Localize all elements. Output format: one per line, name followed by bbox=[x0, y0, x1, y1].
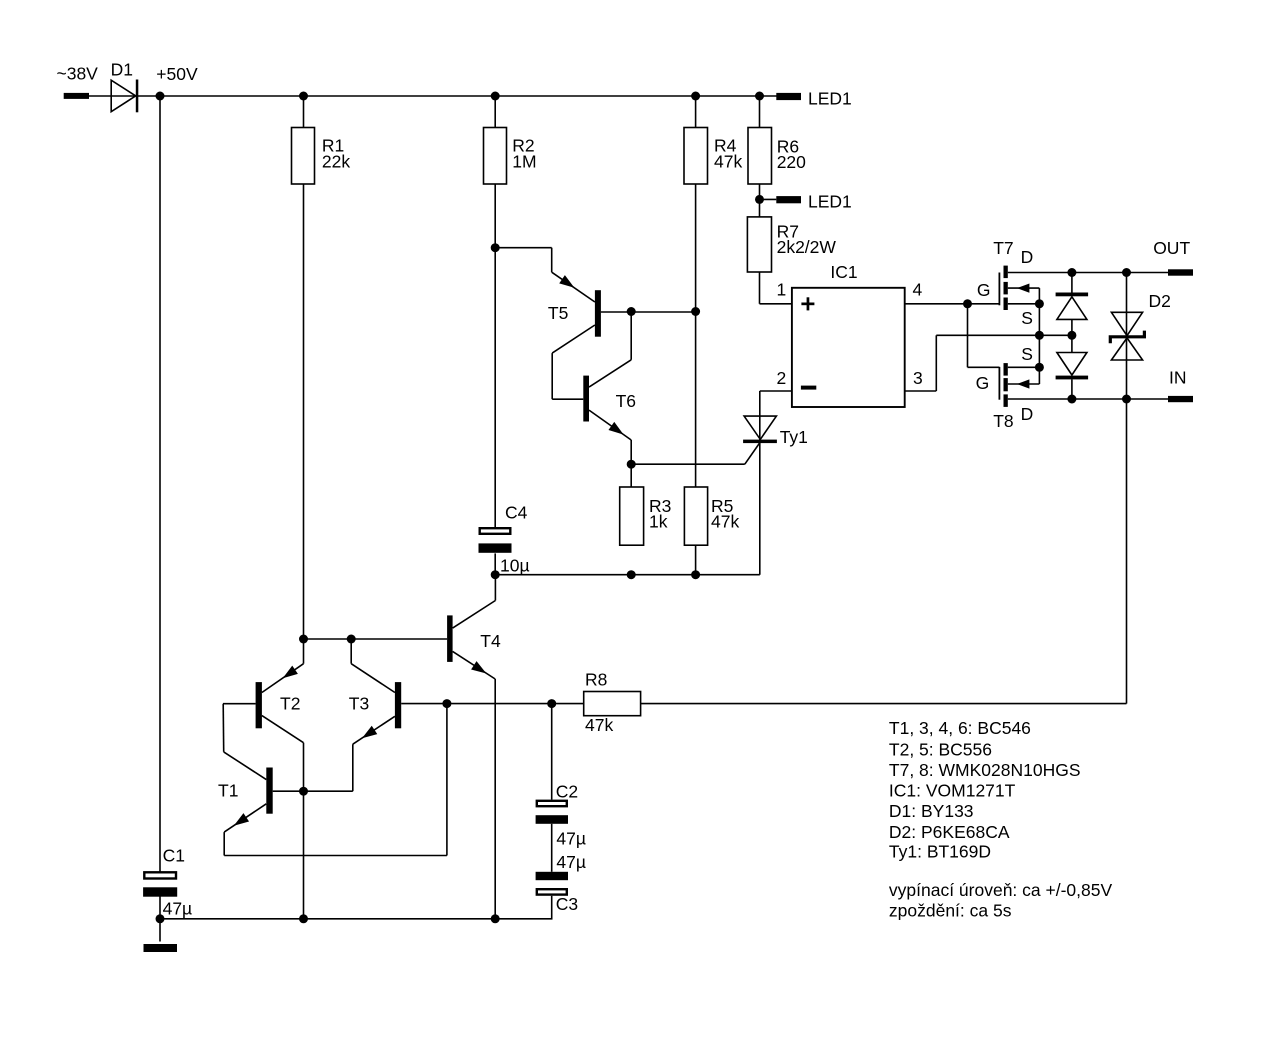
svg-text:G: G bbox=[976, 373, 990, 393]
svg-text:D1: BY133: D1: BY133 bbox=[889, 801, 974, 821]
svg-text:G: G bbox=[977, 280, 991, 300]
svg-text:4: 4 bbox=[913, 279, 923, 299]
svg-text:IN: IN bbox=[1169, 368, 1187, 388]
svg-text:3: 3 bbox=[913, 368, 923, 388]
svg-text:47µ: 47µ bbox=[556, 828, 586, 848]
svg-text:2k2/2W: 2k2/2W bbox=[777, 237, 837, 257]
svg-text:1k: 1k bbox=[649, 512, 668, 532]
svg-text:IC1: VOM1271T: IC1: VOM1271T bbox=[889, 780, 1016, 800]
svg-text:47k: 47k bbox=[714, 151, 742, 171]
svg-text:T1, 3, 4, 6: BC546: T1, 3, 4, 6: BC546 bbox=[889, 718, 1031, 738]
svg-text:47µ: 47µ bbox=[163, 898, 193, 918]
svg-text:10µ: 10µ bbox=[500, 556, 530, 576]
svg-text:T8: T8 bbox=[993, 411, 1013, 431]
svg-text:T5: T5 bbox=[548, 303, 568, 323]
svg-text:C4: C4 bbox=[505, 502, 528, 522]
svg-text:1: 1 bbox=[777, 279, 787, 299]
svg-text:IC1: IC1 bbox=[830, 262, 857, 282]
svg-text:S: S bbox=[1021, 308, 1033, 328]
svg-text:C2: C2 bbox=[556, 782, 578, 802]
svg-text:T1: T1 bbox=[218, 781, 238, 801]
svg-text:T6: T6 bbox=[616, 391, 636, 411]
svg-text:T2, 5: BC556: T2, 5: BC556 bbox=[889, 740, 992, 760]
svg-text:47µ: 47µ bbox=[556, 852, 586, 872]
svg-text:D2: P6KE68CA: D2: P6KE68CA bbox=[889, 822, 1010, 842]
svg-text:vypínací úroveň: ca +/-0,85V: vypínací úroveň: ca +/-0,85V bbox=[889, 880, 1113, 900]
svg-text:R8: R8 bbox=[585, 669, 607, 689]
svg-text:zpoždění: ca 5s: zpoždění: ca 5s bbox=[889, 901, 1012, 921]
svg-text:T7, 8: WMK028N10HGS: T7, 8: WMK028N10HGS bbox=[889, 760, 1081, 780]
svg-text:T3: T3 bbox=[349, 694, 369, 714]
svg-text:Ty1: BT169D: Ty1: BT169D bbox=[889, 842, 991, 862]
svg-text:D1: D1 bbox=[111, 60, 133, 80]
svg-text:S: S bbox=[1021, 344, 1033, 364]
svg-text:220: 220 bbox=[777, 152, 806, 172]
svg-text:C3: C3 bbox=[556, 894, 578, 914]
svg-text:D2: D2 bbox=[1149, 291, 1171, 311]
svg-text:22k: 22k bbox=[322, 151, 350, 171]
svg-text:T2: T2 bbox=[280, 694, 300, 714]
svg-text:OUT: OUT bbox=[1153, 238, 1190, 258]
svg-text:1M: 1M bbox=[512, 151, 536, 171]
svg-text:C1: C1 bbox=[163, 846, 185, 866]
svg-text:T7: T7 bbox=[993, 238, 1013, 258]
svg-text:LED1: LED1 bbox=[808, 88, 852, 108]
svg-text:2: 2 bbox=[777, 368, 787, 388]
svg-text:D: D bbox=[1021, 247, 1034, 267]
svg-text:Ty1: Ty1 bbox=[780, 427, 808, 447]
svg-text:+50V: +50V bbox=[156, 64, 198, 84]
svg-text:D: D bbox=[1021, 404, 1034, 424]
svg-text:~38V: ~38V bbox=[57, 64, 99, 84]
svg-text:LED1: LED1 bbox=[808, 191, 852, 211]
svg-text:47k: 47k bbox=[585, 715, 613, 735]
svg-text:47k: 47k bbox=[711, 512, 739, 532]
svg-text:T4: T4 bbox=[480, 631, 501, 651]
